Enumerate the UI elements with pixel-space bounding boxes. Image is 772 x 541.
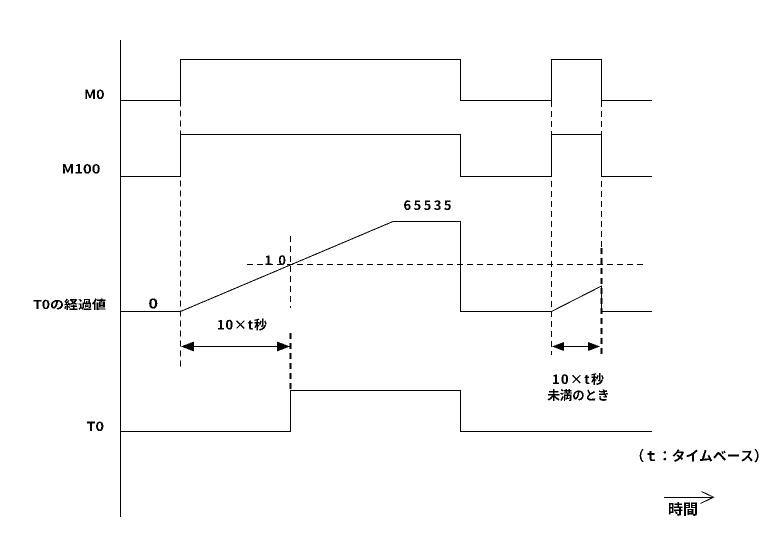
dashed horizontal level 10 line (247, 264, 643, 266)
text: label jikan (669, 502, 697, 516)
text: label T0 (87, 422, 104, 432)
text: value 10 (266, 255, 286, 265)
M0 waveform (121, 60, 653, 101)
time axis arrow (664, 497, 713, 499)
text: value 0 (149, 298, 157, 308)
text: label T0 elapsed (33, 299, 105, 311)
dashed vertical at x=601 upper (601, 101, 603, 248)
dashed vertical at x=291 lower bold (290, 333, 292, 390)
measure arrow 10xt sec right (553, 346, 599, 348)
T0 elapsed value waveform with ramps (121, 222, 653, 312)
text: label timebase (640, 449, 759, 462)
text: label 10xt sec 1 (218, 319, 267, 331)
measure arrow 10xt sec left (182, 346, 289, 348)
text: label misman (548, 389, 608, 401)
dashed vertical at x=180 (180, 101, 182, 369)
M100 waveform (121, 135, 653, 177)
text: label M100 (63, 164, 100, 174)
T0 waveform (121, 391, 653, 432)
text: label M0 (85, 90, 104, 100)
text: label 10xt sec 2 (553, 373, 604, 385)
dashed vertical at x=551 (551, 101, 553, 355)
vertical axis (120, 40, 122, 517)
dashed vertical at x=291 upper (290, 236, 292, 308)
dashed vertical at x=601 lower bold (601, 248, 603, 358)
text: value 65535 (404, 200, 451, 210)
